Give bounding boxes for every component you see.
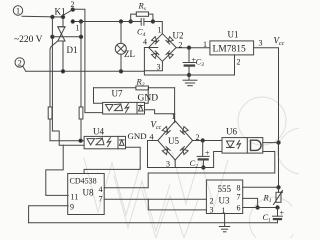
svg-text:R1: R1 (263, 193, 272, 205)
svg-text:U4: U4 (93, 127, 104, 137)
svg-text:3: 3 (157, 63, 161, 72)
wire: gate resistor to U4 top-left pin (49, 119, 51, 141)
diode TR (166, 37, 173, 44)
lamp ZL (115, 22, 126, 72)
svg-text:GND: GND (128, 131, 147, 141)
svg-text:2: 2 (237, 58, 241, 67)
wire: phase line from terminal 1 (22, 15, 61, 18)
wire: U8 pin7 to 555 pin2 (104, 198, 206, 200)
svg-text:ZL: ZL (124, 49, 135, 59)
node: RC right junction (151, 20, 154, 23)
node: RC left junction (129, 20, 132, 23)
svg-text:U2: U2 (173, 31, 184, 41)
svg-text:2: 2 (71, 0, 75, 9)
svg-text:1: 1 (76, 24, 80, 33)
switch K1 blade (61, 10, 72, 17)
svg-text:1: 1 (172, 112, 176, 121)
svg-text:Vcc: Vcc (151, 120, 162, 132)
capacitor C2 (197, 141, 209, 168)
wire: U1 pin3 to Vcc rail (254, 48, 279, 193)
svg-text:4: 4 (150, 132, 154, 141)
diode BR (166, 51, 173, 58)
node: gate junction on x52 (51, 35, 54, 38)
svg-text:LM7815: LM7815 (213, 45, 247, 55)
wire: U5 pin1 top (174, 114, 176, 122)
wire: 555 pin8 to rail (243, 186, 279, 188)
optocoupler U6 (222, 138, 263, 154)
wire: U8 pin 9 to bottom rail (29, 206, 69, 223)
capacitor C3 (183, 48, 195, 75)
svg-text:U3: U3 (219, 196, 230, 206)
wire: common line (148, 167, 214, 169)
svg-text:555: 555 (218, 184, 232, 194)
svg-text:Vcc: Vcc (274, 36, 285, 48)
svg-text:+: + (205, 149, 210, 158)
svg-text:Rs: Rs (138, 1, 146, 13)
chip U8 CD4538 (68, 174, 105, 215)
svg-text:GND: GND (138, 94, 159, 104)
node: C2 bottom junction (202, 166, 205, 169)
wire: contact 2 to vertical (73, 9, 103, 112)
wire: U2 pin4 to ground line (144, 48, 157, 76)
wire: U1 pin2 down (234, 55, 236, 75)
wire: U2 pin3 to ground line (144, 61, 162, 71)
svg-text:2: 2 (196, 133, 200, 142)
svg-text:6: 6 (237, 204, 241, 213)
svg-text:1: 1 (158, 26, 162, 35)
wire: U5 pin2 to U6 (193, 140, 222, 142)
potentiometer R1 (274, 191, 283, 205)
node: R1 bottom junction (276, 206, 279, 209)
svg-text:2: 2 (210, 197, 214, 206)
svg-text:8: 8 (237, 184, 241, 193)
wire: U5 pin4 to common (148, 141, 158, 168)
node: junction x81 (79, 20, 82, 23)
capacitor C4 (131, 19, 153, 26)
wire: RC to U2 pin 1 (153, 22, 162, 34)
wire: U7 bottom-right pin to U5 pin1 vertical (145, 110, 175, 114)
node: lamp bottom junction (119, 70, 122, 73)
node: gate line junction on x81 (79, 35, 82, 38)
svg-text:4: 4 (99, 185, 103, 194)
svg-text:+: + (280, 209, 285, 218)
ground symbol under C3 (183, 75, 197, 86)
wire: branch down to U8 pin11/9 loop (46, 145, 68, 195)
node: junction at U4 top-left (79, 139, 82, 142)
svg-text:U7: U7 (112, 89, 123, 99)
svg-text:2: 2 (179, 41, 183, 50)
wire: vertical from phase junction x52 (51, 17, 53, 131)
svg-text:D1: D1 (67, 45, 78, 55)
wire: neutral line from terminal 2 (23, 66, 26, 71)
node: C3 top junction (187, 46, 190, 49)
triac D1 (50, 17, 65, 107)
resistor R2 (94, 86, 175, 103)
svg-text:C1: C1 (263, 212, 272, 224)
optocoupler U7 (103, 102, 145, 114)
capacitor C1 (273, 208, 283, 223)
wire: U2 pin2 to U1 pin1 (176, 47, 210, 49)
svg-text:U5: U5 (168, 136, 179, 146)
wire: U5 pin3 down (174, 160, 176, 168)
ground symbol under 555 (219, 227, 230, 232)
svg-text:1: 1 (203, 40, 207, 49)
wire: 555 pin6 line (243, 207, 278, 209)
node: lamp top junction (119, 20, 122, 23)
terminal circle 1 (13, 6, 22, 16)
wire: vertical from contact1 junction down through resistor to U4 (80, 22, 82, 108)
svg-text:U6: U6 (226, 127, 237, 137)
svg-text:1: 1 (222, 206, 226, 215)
svg-text:1: 1 (16, 7, 20, 16)
svg-text:3: 3 (210, 206, 214, 215)
svg-text:7: 7 (237, 193, 241, 202)
svg-text:C3: C3 (196, 57, 205, 69)
bridge rectifier U5 (158, 121, 193, 160)
wire: contact 1 line to RC network (73, 21, 131, 23)
wire: U7 top-right pin up to R2 wire (145, 88, 149, 104)
resistor Rs top (131, 12, 153, 22)
wire: U6 bottom-right loop to U8 pin4 (104, 152, 275, 188)
svg-text:7: 7 (99, 195, 103, 204)
node: 555 pin8 junction on rail (277, 186, 280, 189)
wire: 555 pin7 to pin6 node (243, 198, 258, 207)
node: D1 bottom junction (61, 70, 64, 73)
svg-text:U8: U8 (83, 188, 94, 198)
wire: U4 right pin to U8 top (84, 147, 140, 173)
watermark (84, 97, 299, 240)
svg-text:U1: U1 (228, 30, 239, 40)
resistor (unlabeled) on x81 (79, 107, 83, 119)
wire: U6 top-right to Vcc rail (263, 142, 279, 144)
svg-text:11: 11 (71, 193, 79, 202)
svg-text:K1: K1 (55, 7, 66, 17)
node: pin7 junction (256, 206, 259, 209)
svg-text:3: 3 (259, 39, 263, 48)
wire: 555 pin3 loop (148, 199, 206, 210)
optocoupler U4 (84, 136, 125, 148)
bridge rectifier U2 (149, 34, 177, 62)
wire: D1 gate horizontal (52, 36, 81, 38)
wire: bottom ground rail (29, 222, 278, 224)
node: C2 top junction (201, 139, 204, 142)
regulator U1 LM7815 (210, 41, 254, 55)
wire: jog to U4 lower left pin (52, 131, 84, 145)
chip U3 555 (206, 180, 242, 214)
svg-text:CD4538: CD4538 (70, 177, 97, 186)
svg-text:C4: C4 (137, 27, 146, 39)
svg-text:9: 9 (70, 203, 74, 212)
node: junction at D1 top (61, 15, 64, 18)
node: K1 contact 2 (71, 8, 74, 11)
node: U6 top junction on rail (277, 141, 280, 144)
svg-text:R2: R2 (136, 77, 145, 89)
diode TL (152, 37, 159, 44)
svg-text:C2: C2 (190, 158, 199, 170)
diode BL (152, 51, 159, 58)
wire: 555 pin1 to ground (224, 214, 226, 227)
svg-text:~220 V: ~220 V (14, 35, 43, 45)
svg-text:2: 2 (18, 58, 22, 67)
node: junction on phase line (51, 15, 54, 18)
svg-text:4: 4 (143, 38, 147, 47)
node: ground junction under C3 (187, 73, 190, 76)
wire: R2 right down to U5 pin1 (174, 88, 176, 123)
resistor (unlabeled) on gate line x50 (48, 107, 52, 119)
node: contact 1 (71, 20, 74, 23)
terminal circle 2 (15, 58, 24, 68)
svg-text:3: 3 (166, 160, 170, 169)
wire: U6 bottom-left pin (214, 152, 222, 168)
wire: ground line to U1 pin 2 (144, 74, 234, 76)
